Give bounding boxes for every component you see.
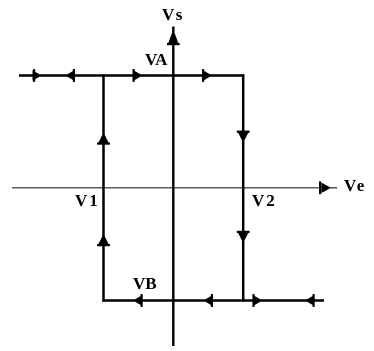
svg-text:V1: V1: [75, 191, 100, 210]
arrow right on top line between V1 and axis: [133, 69, 143, 82]
svg-text:Ve: Ve: [344, 176, 366, 195]
arrow left on top-left overhang: [65, 69, 75, 82]
arrow up on left branch lower: [97, 234, 110, 246]
arrow left on bottom-right overhang: [305, 294, 315, 307]
wire: right branch (V2 vertical): [242, 74, 245, 301]
horizontal axis Ve: [12, 181, 337, 194]
wire: top hysteresis line (Vs = VA level): [19, 74, 244, 77]
svg-text:VA: VA: [145, 50, 168, 69]
svg-text:V2: V2: [252, 191, 277, 210]
arrow left on bottom line mid: [203, 294, 213, 307]
arrow right on bottom-right overhang: [252, 294, 262, 307]
vertical axis Vs: [167, 27, 180, 347]
svg-text:VB: VB: [133, 274, 157, 293]
arrow up on left branch upper: [97, 133, 110, 145]
arrow down on right branch upper: [237, 131, 250, 143]
arrow left on bottom line near VB: [133, 294, 143, 307]
arrow down on right branch lower: [237, 231, 250, 243]
svg-text:Vs: Vs: [162, 5, 184, 24]
wire: bottom hysteresis line (Vs = VB level): [102, 299, 324, 302]
arrow right on top-left overhang: [33, 69, 42, 82]
arrow right on top line between axis and V2: [202, 69, 212, 82]
wire: left branch (V1 vertical): [102, 74, 105, 301]
